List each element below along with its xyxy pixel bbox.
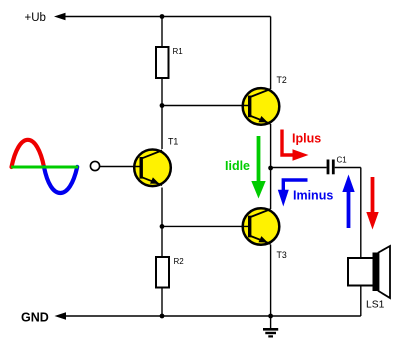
node R1 / T1 collector / T2 base xyxy=(160,103,165,108)
input sine wave blue half xyxy=(44,167,77,193)
wire node to T3 base xyxy=(162,225,249,227)
svg-text:C1: C1 xyxy=(337,156,348,165)
svg-text:R2: R2 xyxy=(174,257,185,266)
transistor T2 xyxy=(243,88,280,125)
wire right bus down to speaker xyxy=(360,168,362,259)
wire T2 collector xyxy=(270,17,272,90)
arrow speaker current down red xyxy=(371,177,375,213)
GND arrowhead xyxy=(55,312,67,320)
arrow speaker current up blue xyxy=(347,191,351,228)
wire left bus top segment xyxy=(161,17,163,48)
node output xyxy=(268,166,273,171)
svg-text:Iplus: Iplus xyxy=(292,132,321,146)
svg-text:+Ub: +Ub xyxy=(25,12,46,24)
svg-text:LS1: LS1 xyxy=(366,300,385,311)
wire C1 to right bus xyxy=(335,167,361,169)
svg-text:GND: GND xyxy=(21,311,49,325)
input sine wave red half xyxy=(12,140,45,167)
wire R2 bottom to GND rail xyxy=(161,288,163,317)
node R2 / GND rail xyxy=(160,314,165,319)
wire GND rail xyxy=(58,315,361,317)
wire +Ub top rail xyxy=(58,16,271,18)
wire output node to C1 xyxy=(271,167,327,169)
wire R1 bottom to node xyxy=(161,78,163,149)
+Ub arrowhead xyxy=(54,13,66,21)
resistor R2 xyxy=(156,257,169,288)
svg-text:T3: T3 xyxy=(277,250,287,260)
wire T2 emitter to output node xyxy=(270,124,272,168)
ground symbol xyxy=(270,316,272,329)
transistor T3 xyxy=(243,208,280,245)
svg-text:T2: T2 xyxy=(277,75,287,85)
svg-text:Iidle: Iidle xyxy=(225,159,250,173)
svg-text:R1: R1 xyxy=(173,47,184,56)
wire input to T1 base xyxy=(100,166,140,168)
wire node to T2 base xyxy=(162,105,249,107)
transistor T1 xyxy=(134,150,171,187)
arrow Iidle green xyxy=(257,136,261,184)
svg-text:Iminus: Iminus xyxy=(293,189,333,203)
wire T3 emitter to GND rail xyxy=(270,245,272,317)
input sine wave green zero line xyxy=(11,166,78,169)
resistor R1 xyxy=(156,47,169,78)
svg-text:T1: T1 xyxy=(168,137,178,147)
speaker LS1 xyxy=(348,258,374,286)
node T3 emitter / GND rail / ground xyxy=(268,314,273,319)
wire T1 emitter down xyxy=(161,188,163,258)
arrow Iplus red xyxy=(282,130,294,156)
node top rail / R1 xyxy=(160,14,165,19)
arrow Iminus blue xyxy=(283,180,307,190)
wire speaker to GND rail xyxy=(360,286,362,317)
input terminal circle xyxy=(90,161,99,170)
node T1 emitter / T3 base / R2 xyxy=(160,224,165,229)
wire output node to T3 collector xyxy=(270,168,272,209)
capacitor C1 xyxy=(327,160,330,175)
